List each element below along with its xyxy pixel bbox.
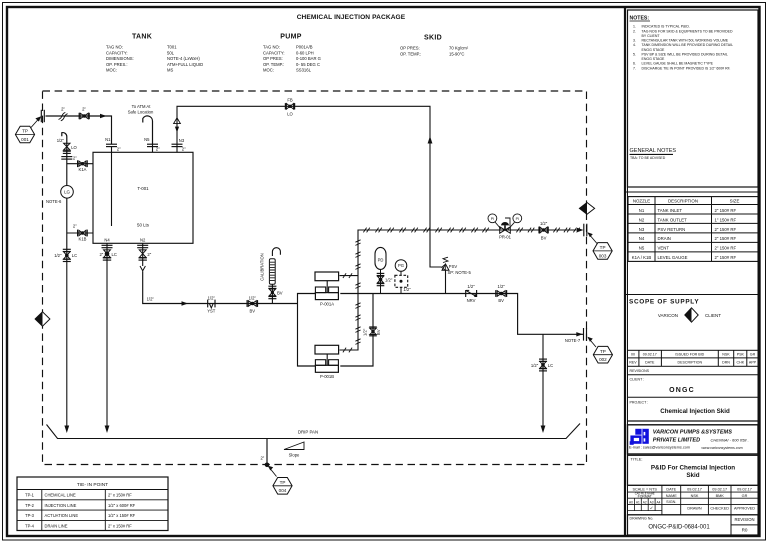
svg-text:NAME: NAME [666,494,677,498]
svg-text:REV: REV [629,361,637,365]
valve BV below calibration pot [268,285,276,287]
svg-text:OP. TEMP.:: OP. TEMP.: [263,62,284,67]
vent check on N3 [174,118,181,124]
svg-text:1/2" x 150# RF: 1/2" x 150# RF [108,513,136,518]
svg-text:SS316L: SS316L [296,68,312,73]
svg-text:CLIENT :: CLIENT : [630,378,645,382]
LG standpipe wire [66,153,68,249]
svg-text:DATE: DATE [666,487,676,491]
inlet flange at boundary [40,110,42,122]
svg-text:E-mail : sales@variconsystems.: E-mail : sales@variconsystems.com [629,445,690,449]
svg-text:1/2": 1/2" [208,296,216,301]
svg-text:MOC:: MOC: [106,68,117,73]
svg-text:INJECTION LINE: INJECTION LINE [45,503,77,508]
svg-text:15-90°C: 15-90°C [449,51,464,56]
svg-text:A0: A0 [629,500,633,504]
svg-text:P001A/B: P001A/B [296,45,313,50]
svg-text:CALIBRATION: CALIBRATION [259,253,264,281]
svg-text:2" x 150# RF: 2" x 150# RF [108,493,132,498]
svg-text:2": 2" [73,156,77,161]
svg-text:2": 2" [260,456,264,461]
svg-text:1/2": 1/2" [531,363,539,368]
svg-text:DRAWN: DRAWN [687,507,701,511]
svg-text:PR-01: PR-01 [499,235,512,240]
vent wire gooseneck [143,116,153,144]
LG drain wire to drip pan [66,249,68,427]
svg-text:LC: LC [548,363,553,368]
svg-text:Skid: Skid [686,472,699,479]
svg-text:VARICON PUMPS &SYSTEMS: VARICON PUMPS &SYSTEMS [653,430,732,436]
svg-text:ENGG STAGE: ENGG STAGE [642,57,666,61]
svg-text:0-100 BAR G: 0-100 BAR G [296,56,321,61]
svg-text:2" 150# RF: 2" 150# RF [715,255,737,260]
svg-text:K1B: K1B [79,237,87,242]
svg-text:TP-4: TP-4 [25,524,35,529]
svg-text:3.: 3. [633,39,636,43]
svg-text:SCOPE OF SUPPLY: SCOPE OF SUPPLY [629,299,699,306]
svg-text:2" 150# RF: 2" 150# RF [715,227,737,232]
svg-text:P-001B: P-001B [320,374,334,379]
svg-text:N3: N3 [639,227,645,232]
chemical inlet wire [46,116,112,144]
level gauge LG [61,186,74,199]
svg-text:NRV: NRV [467,298,476,303]
check valve NRV [465,290,467,297]
line break symbol [59,112,68,120]
nozzle table [628,197,758,262]
pump P-001A [315,272,339,281]
svg-text:Chemical Injection Skid: Chemical Injection Skid [660,408,730,415]
svg-text:2": 2" [82,107,86,112]
svg-text:4.: 4. [633,43,636,47]
svg-text:09.02.17: 09.02.17 [687,487,702,491]
valve 1/2 under PD [377,272,385,274]
svg-text:2": 2" [156,147,160,152]
discharge boundary flange TP-2 [583,328,585,341]
svg-text:TP-1: TP-1 [25,493,35,498]
svg-text:www.variconsystems.com: www.variconsystems.com [702,446,743,450]
svg-text:DISCHARGE TIE IN POINT PROVIDE: DISCHARGE TIE IN POINT PROVIDED IS 1/2" … [642,66,731,70]
inlet ball valve 2" [80,113,88,119]
svg-text:001: 001 [21,137,29,142]
svg-text:TP: TP [22,129,28,134]
leader wire [588,233,597,244]
svg-text:LC: LC [112,252,117,257]
svg-text:APPROVED: APPROVED [734,507,755,511]
svg-text:2": 2" [147,252,151,257]
svg-text:1/2": 1/2" [57,138,65,143]
svg-text:1/2": 1/2" [249,296,257,301]
suction manifold wire [298,294,316,367]
svg-text:09.02.17: 09.02.17 [712,487,727,491]
svg-text:CAPACITY:: CAPACITY: [106,50,128,55]
revisions strip [628,374,759,376]
dip tube wire [111,147,113,226]
svg-text:PSV RETURN: PSV RETURN [658,227,686,232]
svg-text:ONGC-P&ID-0684-001: ONGC-P&ID-0684-001 [648,525,710,531]
revision table [628,350,759,366]
svg-text:SP: NOTE-5: SP: NOTE-5 [448,270,472,275]
svg-text:SCALE = NTS: SCALE = NTS [633,487,658,491]
svg-text:2": 2" [117,147,121,152]
N4 drain wire to drip pan [106,260,108,426]
svg-text:SKID: SKID [424,35,442,42]
svg-text:OP PRES:: OP PRES: [263,56,283,61]
svg-text:DATE: DATE [645,361,655,365]
PSV return wire [177,106,430,230]
svg-text:PSK: PSK [737,353,745,357]
leader wire [588,338,596,348]
svg-text:TANK INLET: TANK INLET [658,208,683,213]
discharge drain branch wire [542,334,544,426]
svg-text:LG: LG [64,190,70,195]
suction wire to pumps [143,271,298,303]
flow arrow [577,228,584,232]
svg-text:5.: 5. [633,52,636,56]
svg-text:R0: R0 [742,528,748,533]
svg-text:VENT: VENT [658,246,670,251]
svg-text:2.: 2. [633,29,636,33]
leader wire [269,467,277,477]
svg-text:PROJECT :: PROJECT : [630,401,649,405]
svg-text:OP. PRES.:: OP. PRES.: [106,62,128,67]
svg-text:PSV BP & SIZE WILL BE PROVIDED: PSV BP & SIZE WILL BE PROVIDED DURING DE… [642,52,728,56]
svg-text:1/2": 1/2" [467,284,475,289]
svg-text:NOTE-4 (LxWxH): NOTE-4 (LxWxH) [167,56,200,61]
svg-text:LEVEL GAUGE SHALL BE MAGNETIC: LEVEL GAUGE SHALL BE MAGNETIC TYPE [642,62,714,66]
svg-text:N2: N2 [639,217,645,222]
svg-text:BV: BV [250,308,256,313]
svg-text:N1: N1 [105,137,111,142]
svg-text:TP: TP [600,245,606,250]
svg-text:PI: PI [516,217,519,221]
svg-text:DRIP PAN: DRIP PAN [298,429,318,434]
svg-text:CHK: CHK [737,361,745,365]
svg-text:1/2": 1/2" [498,284,506,289]
svg-text:SIGN.: SIGN. [666,500,676,504]
gauge PI left [488,214,497,223]
N4 drain flange [102,244,113,246]
suction wire down [142,260,144,266]
svg-text:FB: FB [287,98,293,103]
svg-text:1/2" x 600# RF: 1/2" x 600# RF [108,503,136,508]
svg-text:T001: T001 [167,45,177,50]
scope of supply legend [626,294,759,296]
svg-text:N5: N5 [639,246,645,251]
svg-text:1/2": 1/2" [54,253,62,258]
svg-text:2" 150# RF: 2" 150# RF [715,208,737,213]
calibration vent gooseneck [272,248,280,256]
tank T-001 [93,152,193,243]
svg-text:BV: BV [376,329,381,335]
relief valve PSV [430,230,446,294]
svg-text:N4: N4 [639,236,645,241]
svg-text:6.: 6. [633,62,636,66]
svg-text:BY CLIENT: BY CLIENT [642,34,661,38]
svg-text:CAPACITY:: CAPACITY: [263,50,285,55]
svg-text:ISSUED FOR BID: ISSUED FOR BID [675,353,704,357]
svg-text:NSK: NSK [691,494,699,498]
svg-text:1/2": 1/2" [403,287,411,292]
K1A branch wire [67,163,93,165]
valve BV on riser [370,328,376,334]
svg-text:K1A / K1B: K1A / K1B [632,255,652,260]
svg-text:Safe Location: Safe Location [128,110,154,115]
N2 outlet flange [137,244,148,246]
svg-text:PI: PI [491,217,494,221]
svg-text:PUMP: PUMP [280,34,301,41]
drip pan [47,424,581,439]
svg-text:TITLE:: TITLE: [631,457,643,462]
svg-text:LEVEL GAUGE: LEVEL GAUGE [658,255,688,260]
svg-text:GR: GR [742,494,748,498]
svg-text:N5: N5 [144,137,150,142]
svg-text:DRAIN LINE: DRAIN LINE [45,524,68,529]
svg-text:N1: N1 [639,208,645,213]
svg-text:TAG NO:: TAG NO: [263,45,280,50]
svg-text:T-001: T-001 [137,186,149,191]
svg-text:TANK DIMENSION WILL BE PROVIDE: TANK DIMENSION WILL BE PROVIDED DURING D… [642,43,734,47]
svg-text:LO: LO [287,112,293,117]
node drain connection [265,463,270,468]
svg-text:DESCRIPTION: DESCRIPTION [678,361,703,365]
svg-text:MS: MS [167,68,173,73]
sidebar section divider [626,191,759,193]
svg-text:BMK: BMK [716,494,725,498]
svg-text:✓: ✓ [650,506,654,511]
svg-text:TAG NO:: TAG NO: [106,45,123,50]
valve K1B [79,230,86,235]
svg-text:NOTE-6: NOTE-6 [46,199,62,204]
svg-text:TAG NOS FOR SKID & EQUIPMENTS: TAG NOS FOR SKID & EQUIPMENTS TO BE PROV… [642,29,733,33]
svg-text:CHECKED: CHECKED [710,507,729,511]
svg-text:2" 150# RF: 2" 150# RF [715,236,737,241]
flow arrow [576,332,583,336]
drawing number block [628,515,759,535]
svg-text:PD: PD [378,258,384,263]
svg-text:NOZZLE: NOZZLE [633,199,650,204]
svg-text:BV: BV [498,298,504,303]
svg-text:SIZE: SIZE [730,199,740,204]
svg-text:A2: A2 [643,500,647,504]
svg-text:09.02.17: 09.02.17 [643,353,657,357]
svg-text:TBA: TO BE ADVISED: TBA: TO BE ADVISED [630,156,666,160]
valve BV on discharge [497,291,505,297]
svg-text:FORMAT: FORMAT [638,495,652,499]
svg-text:APP: APP [749,361,757,365]
svg-text:INDICATED IS TYPICAL P&ID.: INDICATED IS TYPICAL P&ID. [642,25,690,29]
company block [628,425,759,454]
svg-text:DIMENSIONS:: DIMENSIONS: [106,56,134,61]
valve BV on suction [248,301,256,307]
svg-text:REVISION: REVISION [734,517,754,522]
svg-text:ONGC: ONGC [669,387,695,394]
actuation boundary flange TP-3 [583,224,585,237]
valve LC on N4 drain [104,250,111,258]
title block [628,455,759,485]
svg-text:TIE- IN POINT: TIE- IN POINT [77,482,108,488]
level gauge vent gooseneck [62,133,67,153]
svg-text:LO: LO [71,145,77,150]
svg-text:00: 00 [631,353,635,357]
svg-text:A4: A4 [657,500,661,504]
actuation wire (pneumatic) [340,230,580,350]
svg-text:REVISIONS: REVISIONS [630,369,650,373]
svg-text:PSV: PSV [449,264,458,269]
svg-text:P-001A: P-001A [320,301,334,306]
svg-text:P&ID For Chemcial Injection: P&ID For Chemcial Injection [651,465,735,472]
svg-text:50 Lts: 50 Lts [137,223,150,228]
svg-text:RECTANGULAR TANK WITH 50L WORK: RECTANGULAR TANK WITH 50L WORKING VOLUME [642,39,729,43]
scale/sign table [628,485,759,515]
reducer [140,266,145,271]
slope symbol [284,442,304,450]
tie-in tag TP-002 [593,346,612,363]
flow arrow [100,114,107,118]
svg-text:1/2": 1/2" [363,328,368,336]
svg-text:Slope: Slope [289,452,300,457]
valve FB (LO) on PSV return [286,104,293,110]
svg-text:2": 2" [182,147,186,152]
pressure gauge PG [395,260,407,272]
svg-text:70 Kg/cm²: 70 Kg/cm² [449,46,469,51]
svg-text:TANK OUTLET: TANK OUTLET [658,217,688,222]
pulsation dampener PD [375,247,386,269]
pan drain stub wire [266,439,268,466]
svg-text:BV: BV [277,290,283,295]
diaphragm seal (dashed) [395,275,408,287]
logo varicon [630,429,649,445]
tie-in tag TP-003 [593,243,612,260]
svg-text:0- 55 DEG C: 0- 55 DEG C [296,62,320,67]
svg-text:To ATM At: To ATM At [132,104,152,109]
svg-text:1/2": 1/2" [540,221,548,226]
svg-text:DRAWING No.: DRAWING No. [630,516,654,520]
svg-text:0-60 LPH: 0-60 LPH [296,50,314,55]
svg-text:50L: 50L [167,50,175,55]
svg-text:004: 004 [279,488,287,493]
notes box [628,10,759,187]
gauge PI right [513,214,522,223]
svg-text:003: 003 [599,253,607,258]
K1B branch wire [67,232,93,234]
svg-text:TP-2: TP-2 [25,503,35,508]
scope break diamond left [35,312,50,326]
tie-in tag TP-004 [273,478,292,495]
svg-text:ACTUATION LINE: ACTUATION LINE [45,513,79,518]
wire column to suction [271,285,273,304]
svg-text:CHENNAI - 600 058 .: CHENNAI - 600 058 . [711,437,749,442]
svg-text:PRIVATE LIMITED: PRIVATE LIMITED [653,437,700,443]
leader wire to inlet flange [31,119,39,128]
svg-text:1" 150# RF: 1" 150# RF [715,217,737,222]
svg-text:A1: A1 [636,500,640,504]
scope break diamond right [579,203,594,215]
svg-text:2": 2" [61,107,65,112]
svg-text:MOC:: MOC: [263,68,274,73]
svg-text:CHEMICAL INJECTION PACKAGE: CHEMICAL INJECTION PACKAGE [297,14,406,21]
svg-text:VARICON: VARICON [658,313,678,318]
svg-text:7.: 7. [633,66,636,70]
svg-text:N2: N2 [140,238,146,243]
svg-text:ENGG STAGE: ENGG STAGE [642,48,666,52]
valve K1A [79,161,86,166]
svg-text:DESCRIPTION: DESCRIPTION [668,199,698,204]
svg-text:LC: LC [72,253,77,258]
sidebar divider [624,8,626,535]
svg-text:GR: GR [750,353,756,357]
svg-text:N4: N4 [104,238,110,243]
svg-text:TANK: TANK [132,34,152,41]
skid battery-limit dashed boundary [43,91,587,465]
svg-text:2" x 150# RF: 2" x 150# RF [108,524,132,529]
nozzle stubs [107,144,177,261]
svg-text:DRN: DRN [722,361,730,365]
pump B discharge riser wire [340,294,373,367]
valve LC on discharge drain [539,358,547,360]
pump P-001B [315,345,339,354]
svg-text:1.: 1. [633,25,636,29]
svg-text:1/2": 1/2" [385,277,393,282]
svg-text:OP PRES:: OP PRES: [400,46,420,51]
svg-text:1/2": 1/2" [147,297,155,302]
svg-text:NOTE-7: NOTE-7 [565,338,581,343]
svg-text:BV: BV [541,235,547,240]
svg-text:TP-3: TP-3 [25,513,35,518]
regulator PR-01 [500,227,511,233]
svg-text:2": 2" [73,224,77,229]
tie-in tag TP-001 [15,126,34,143]
svg-text:ATM+FULL LIQUID: ATM+FULL LIQUID [167,62,203,67]
strainer YST [207,300,209,308]
svg-text:GENERAL NOTES: GENERAL NOTES [630,148,677,154]
svg-text:2": 2" [99,252,103,257]
svg-text:YST: YST [207,308,216,313]
svg-text:OP. TEMP.:: OP. TEMP.: [400,51,421,56]
discharge header wire [340,294,583,335]
svg-text:CLIENT: CLIENT [705,313,721,318]
valve LC on LG drain [63,248,71,250]
svg-text:09.02.17: 09.02.17 [737,487,752,491]
svg-text:CHEMICAL LINE: CHEMICAL LINE [45,493,77,498]
svg-text:2" 150# RF: 2" 150# RF [715,246,737,251]
svg-text:A3: A3 [650,500,654,504]
svg-text:N3: N3 [179,138,185,143]
svg-text:PG: PG [398,263,404,268]
svg-text:K1A: K1A [79,167,87,172]
tie-in point table [17,477,168,531]
valve 2" on N2 outlet [139,250,146,258]
valve BV on actuation wire [540,227,547,233]
svg-text:002: 002 [599,357,607,362]
LG flange 2" [61,156,72,158]
valve LO on LG vent [64,143,70,150]
calibration pot [269,259,275,285]
svg-text:DRAIN: DRAIN [658,236,671,241]
svg-text:NSK: NSK [722,353,730,357]
svg-text:TP: TP [280,480,286,485]
svg-text:TP: TP [600,349,606,354]
